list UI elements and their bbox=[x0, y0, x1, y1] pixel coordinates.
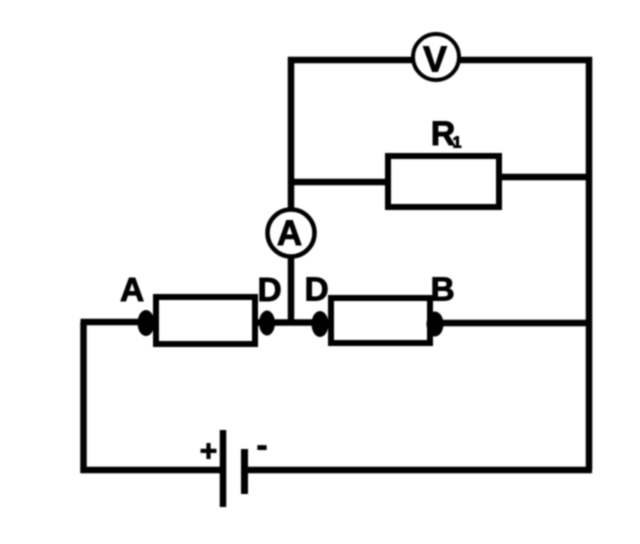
wire: R1 left lead bbox=[291, 179, 390, 186]
svg-text:D: D bbox=[258, 272, 282, 309]
node dot B (right of resistor DB) bbox=[427, 312, 444, 337]
battery positive long plate bbox=[220, 430, 227, 507]
wire: resistor DB to right vertical bbox=[430, 320, 592, 327]
svg-text:A: A bbox=[120, 272, 144, 309]
node dot D (right of resistor AD) bbox=[259, 311, 275, 336]
wire: ammeter to node D bbox=[288, 232, 295, 322]
battery negative short plate bbox=[241, 449, 248, 494]
svg-text:B: B bbox=[431, 272, 455, 309]
wire: bottom left segment (battery left) bbox=[84, 322, 221, 470]
resistor A-D body bbox=[156, 297, 255, 344]
node dot D (left of resistor DB) bbox=[312, 311, 329, 337]
resistor D-B body bbox=[331, 298, 430, 343]
resistor R1 body bbox=[388, 156, 499, 207]
svg-text:A: A bbox=[277, 214, 302, 253]
wire: R1 right lead bbox=[498, 174, 589, 181]
node dot A (left of resistor AD) bbox=[138, 310, 155, 336]
wire: top loop left vertical + top horizontal + right vertical bbox=[291, 60, 589, 470]
svg-text:-: - bbox=[257, 426, 268, 463]
wire: bottom right segment (battery right) bbox=[247, 467, 592, 474]
svg-text:V: V bbox=[423, 39, 447, 80]
wire: between resistors (node D) bbox=[255, 319, 332, 326]
voltmeter U-V circle bbox=[413, 34, 459, 80]
ammeter U-A circle bbox=[268, 210, 315, 257]
wire: middle row left (corner to resistor AD) bbox=[81, 319, 151, 326]
svg-text:1: 1 bbox=[453, 135, 462, 152]
svg-text:D: D bbox=[305, 272, 329, 309]
svg-text:+: + bbox=[200, 435, 218, 468]
